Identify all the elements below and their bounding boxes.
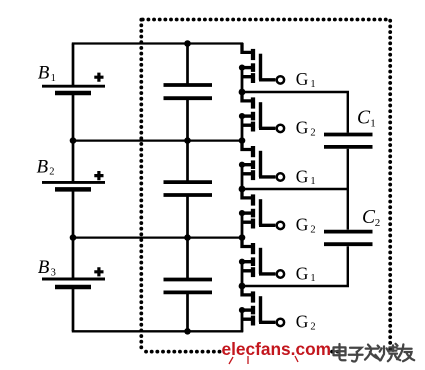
- svg-text:B: B: [37, 156, 49, 177]
- capacitor C2 (switched flying capacitor): [324, 232, 373, 245]
- svg-text:G: G: [296, 118, 309, 138]
- svg-text:G: G: [296, 166, 309, 186]
- svg-text:1: 1: [310, 176, 315, 187]
- wire: top rail (B1+): [72, 42, 243, 44]
- svg-text:C: C: [357, 108, 371, 129]
- capacitor C1 (switched flying capacitor): [324, 135, 373, 147]
- transistor Q1 (NMOS switch): [239, 43, 284, 93]
- node B junction dot: [239, 186, 246, 193]
- transistor Q4 (NMOS switch): [239, 189, 284, 239]
- transistor Q3 (NMOS switch): [239, 140, 284, 189]
- wire: node B tap: [242, 188, 348, 190]
- svg-text:1: 1: [310, 273, 315, 284]
- node C junction dot: [239, 283, 246, 290]
- transistor Q5 (NMOS switch): [239, 237, 284, 286]
- svg-text:G: G: [296, 263, 309, 283]
- svg-text:2: 2: [310, 321, 315, 332]
- svg-text:2: 2: [375, 217, 381, 229]
- svg-text:3: 3: [51, 267, 56, 278]
- polarity plus mark of B1: [94, 73, 103, 82]
- polarity plus mark of B3: [94, 267, 103, 276]
- svg-text:2: 2: [49, 167, 54, 178]
- battery B2: [42, 182, 105, 189]
- polarity plus mark of B2: [94, 171, 103, 180]
- svg-text:G: G: [296, 215, 309, 235]
- wire: battery string column: [72, 44, 75, 332]
- watermark chinese characters 电子发烧友: [334, 344, 415, 362]
- capacitor Cb2 (cell smoothing capacitor): [164, 182, 213, 195]
- battery B3: [42, 279, 105, 287]
- wire: node A to C1 top: [242, 92, 348, 133]
- svg-text:G: G: [296, 312, 309, 332]
- svg-text:elecfans.com: elecfans.com: [222, 339, 332, 359]
- svg-text:B: B: [38, 63, 50, 84]
- svg-text:1: 1: [370, 118, 376, 130]
- junction dots on rails: [70, 40, 246, 334]
- equalizer module boundary (dotted box): [141, 20, 391, 352]
- wire: bottom rail (B3-): [72, 330, 243, 332]
- wire: rail B2-/B3+: [72, 236, 243, 238]
- wire: C1 bottom to C2 top (through node B tap): [347, 149, 349, 230]
- transistor Q6 (NMOS switch): [239, 286, 284, 332]
- svg-text:G: G: [296, 69, 309, 89]
- svg-text:1: 1: [310, 79, 315, 90]
- capacitor Cb3 (cell smoothing capacitor): [164, 280, 213, 293]
- battery B1: [42, 86, 105, 93]
- svg-text:1: 1: [51, 73, 56, 84]
- wire: rail B1-/B2+: [72, 139, 243, 141]
- svg-text:2: 2: [310, 127, 315, 138]
- svg-text:2: 2: [310, 224, 315, 235]
- wire: smoothing-capacitor column: [186, 44, 189, 332]
- transistor Q2 (NMOS switch): [239, 92, 284, 142]
- capacitor Cb1 (cell smoothing capacitor): [164, 85, 213, 98]
- svg-text:B: B: [38, 257, 50, 278]
- node A junction dot: [239, 89, 246, 96]
- wire: C2 bottom to node C: [242, 246, 348, 286]
